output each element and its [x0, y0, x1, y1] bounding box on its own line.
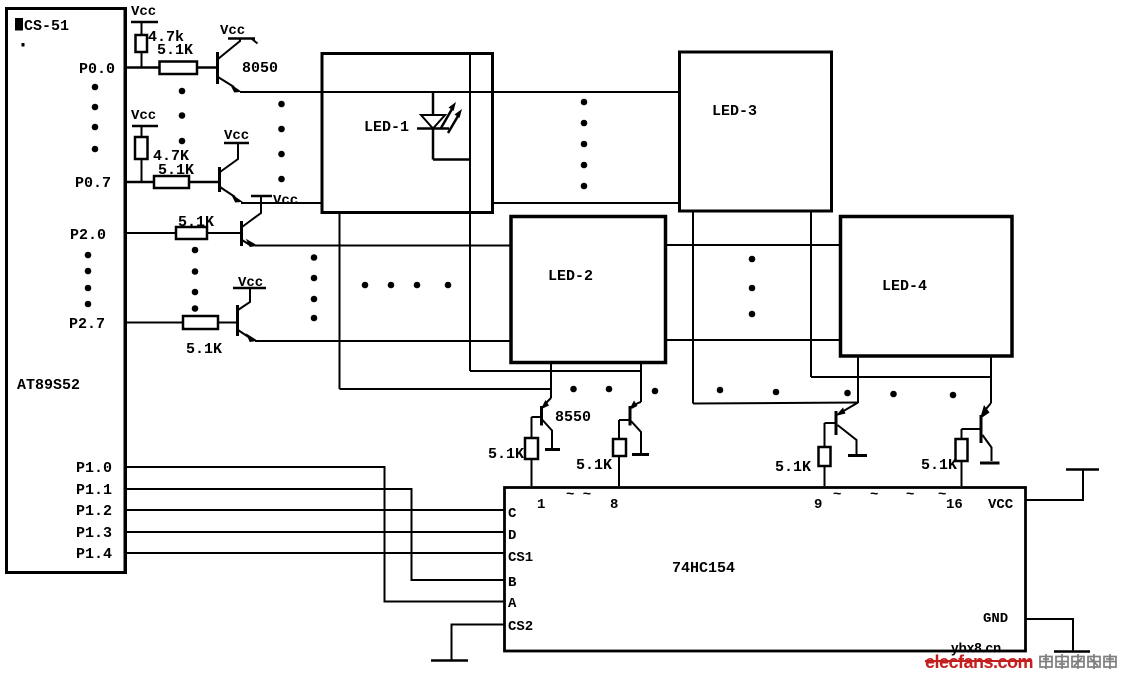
svg-text:1: 1 [537, 497, 545, 513]
transistor Q5 8550 [532, 398, 592, 448]
resistor R1 4.7k [136, 29, 185, 68]
svg-text:LED-3: LED-3 [712, 103, 757, 120]
transistor Q4 8050 [238, 288, 257, 342]
dots column between R2 and Q1 [179, 88, 186, 145]
svg-text:Vcc: Vcc [273, 193, 298, 209]
svg-text:5.1K: 5.1K [186, 341, 222, 358]
wire link C2 to Q6 emitter (y=371) [470, 370, 641, 372]
svg-text:~: ~ [833, 487, 841, 503]
dots column right of Q3 [311, 254, 318, 321]
LED D1 sample inside LED-1 [417, 92, 470, 160]
svg-text:VCC: VCC [988, 497, 1014, 513]
svg-text:8: 8 [610, 497, 618, 513]
LED-4 matrix box [841, 217, 1013, 357]
LED-2 matrix box [511, 217, 666, 363]
wire column C5 (LED-3 column 1 drop) [693, 211, 858, 404]
resistor R4 5.1K (P0.7) [154, 162, 218, 188]
svg-text:~ ~: ~ ~ [566, 487, 591, 503]
power VCC net (74HC154) [1026, 470, 1099, 501]
label MCS-51 [15, 18, 69, 47]
svg-text:74HC154: 74HC154 [672, 560, 735, 577]
wire P1.4 to CS1 [126, 552, 504, 554]
wire row3 P2.0 output left segment [255, 245, 511, 247]
wire row3 P2.0 between LED-2 and LED-4 [666, 244, 841, 246]
svg-text:5.1K: 5.1K [488, 446, 524, 463]
resistor R7 5.1K (pin1) [488, 438, 538, 486]
watermark elecfans.com [925, 652, 1033, 672]
74HC154 box U2 [505, 488, 1026, 652]
svg-text:A: A [508, 596, 517, 612]
svg-text:8050: 8050 [242, 60, 278, 77]
wire P2.7 base [126, 322, 183, 324]
dots row between row3 and row4 [362, 282, 452, 289]
LED-1 matrix box [322, 54, 493, 213]
wire row2 P0.7 output left segment [241, 202, 321, 204]
wire P1.0 to A [126, 467, 504, 602]
svg-text:P2.0: P2.0 [70, 227, 106, 244]
transistor Q3 8050 [242, 196, 262, 247]
dots column below P0.0 inside box [92, 84, 99, 153]
wire column C1 (LED-1 bottom drop) [339, 213, 341, 389]
svg-text:D: D [508, 528, 516, 544]
wire row4 P2.7 between LED-2 and LED-4 [666, 339, 841, 341]
LED-3 matrix box [680, 52, 832, 211]
wire P0.0 base [126, 66, 160, 69]
svg-text:LED-4: LED-4 [882, 278, 927, 295]
svg-text:5.1K: 5.1K [157, 42, 193, 59]
svg-text:P1.3: P1.3 [76, 525, 112, 542]
resistor R9 5.1K (pin9) [775, 447, 831, 486]
resistor R3 4.7K [135, 137, 189, 182]
svg-text:Vcc: Vcc [224, 128, 249, 144]
wire P1.3 to D [126, 531, 504, 533]
wire P1.1 to B [126, 489, 504, 580]
wire LED-2 column drop to Q5 [550, 364, 552, 398]
dots column between LED-2 and LED-4 [749, 256, 756, 318]
svg-text:LED-1: LED-1 [364, 119, 409, 136]
svg-text:GND: GND [983, 611, 1008, 627]
resistor R5 5.1K (P2.0) [176, 214, 240, 239]
svg-text:B: B [508, 575, 517, 591]
svg-text:CS2: CS2 [508, 619, 533, 635]
LED D1 light arrows [441, 102, 462, 133]
power Vcc V3 (4.7K pull-up P0.7) [131, 108, 158, 137]
wire row2 P0.7 output right segment [494, 202, 678, 204]
wire link C1 to Q5 emitter (y=389) [340, 388, 552, 390]
power Vcc V6 (Q4 collector) [233, 275, 266, 291]
svg-text:P1.2: P1.2 [76, 503, 112, 520]
svg-text:5.1K: 5.1K [921, 457, 957, 474]
transistor Q8 8550 [962, 403, 992, 461]
power Vcc V4 (Q2 collector) [224, 128, 249, 144]
transistor Q6 8550 [619, 401, 641, 454]
ground bar Q8 collector [980, 462, 1000, 465]
svg-text:P2.7: P2.7 [69, 316, 105, 333]
wire row4 P2.7 output left segment [255, 340, 511, 342]
dots column right of Q1 [278, 101, 285, 183]
svg-text:Vcc: Vcc [220, 23, 245, 39]
MCS-51 box U1 [7, 8, 126, 573]
svg-text:P1.0: P1.0 [76, 460, 112, 477]
svg-text:8550: 8550 [555, 409, 591, 426]
svg-text:~: ~ [870, 487, 878, 503]
ground bar Q7 collector [848, 454, 867, 457]
svg-text:Vcc: Vcc [131, 4, 156, 20]
transistor Q1 8050 [218, 38, 279, 92]
ground bar Q5 collector [545, 448, 560, 451]
watermark chinese characters [1040, 654, 1116, 669]
wire LED-4 column drop to Q7 [857, 357, 859, 403]
wire P0.7 base [126, 181, 154, 184]
ground bar Q6 collector [632, 453, 649, 456]
svg-text:C: C [508, 506, 517, 522]
svg-text:5.1K: 5.1K [576, 457, 612, 474]
resistor R10 5.1K (pin16) [921, 439, 968, 486]
dots column between R5 and Q3 [192, 247, 199, 312]
svg-text:5.1K: 5.1K [775, 459, 811, 476]
dots row below LED-2/LED-4 [570, 386, 956, 399]
transistor Q7 8550 [825, 403, 859, 455]
ground at CS2 [431, 625, 504, 661]
svg-text:AT89S52: AT89S52 [17, 377, 80, 394]
wire LED-2 column drop to Q6 [640, 364, 642, 402]
tilde marks 9-16 [833, 487, 946, 503]
wire LED-4 column drop to Q8 [990, 357, 992, 403]
wire column C6 (LED-3 column 2 drop) [811, 211, 991, 377]
transistor Q2 8050 [220, 143, 242, 202]
svg-text:CS-51: CS-51 [24, 18, 69, 35]
svg-text:5.1K: 5.1K [178, 214, 214, 231]
resistor R6 5.1K (P2.7) [183, 316, 236, 358]
svg-text:P1.4: P1.4 [76, 546, 112, 563]
dots column between LED-1 and LED-3 [581, 99, 588, 190]
ground GND net (74HC154) [1026, 619, 1090, 652]
wire row1 P0.0 output y=92 [240, 91, 678, 93]
power Vcc V2 (Q1 collector) [220, 23, 258, 44]
svg-text:16: 16 [946, 497, 963, 513]
svg-text:P0.0: P0.0 [79, 61, 115, 78]
svg-text:LED-2: LED-2 [548, 268, 593, 285]
power Vcc V1 (4.7k pull-up P0.0) [131, 4, 158, 35]
wire column C2 (LED-1 internal column) [469, 54, 471, 371]
svg-text:~: ~ [906, 487, 914, 503]
svg-text:Vcc: Vcc [131, 108, 156, 124]
dots column below P2.0 inside box [85, 252, 92, 308]
wire P1.2 to C [126, 509, 504, 511]
wire P2.0 base [126, 232, 176, 234]
svg-text:5.1K: 5.1K [158, 162, 194, 179]
resistor R2 5.1K (P0.0) [157, 42, 216, 74]
svg-text:P1.1: P1.1 [76, 482, 112, 499]
svg-text:CS1: CS1 [508, 550, 533, 566]
power Vcc V5 (Q3 collector) [251, 193, 298, 209]
svg-text:P0.7: P0.7 [75, 175, 111, 192]
svg-text:9: 9 [814, 497, 822, 513]
resistor R8 5.1K (pin8) [576, 439, 626, 486]
